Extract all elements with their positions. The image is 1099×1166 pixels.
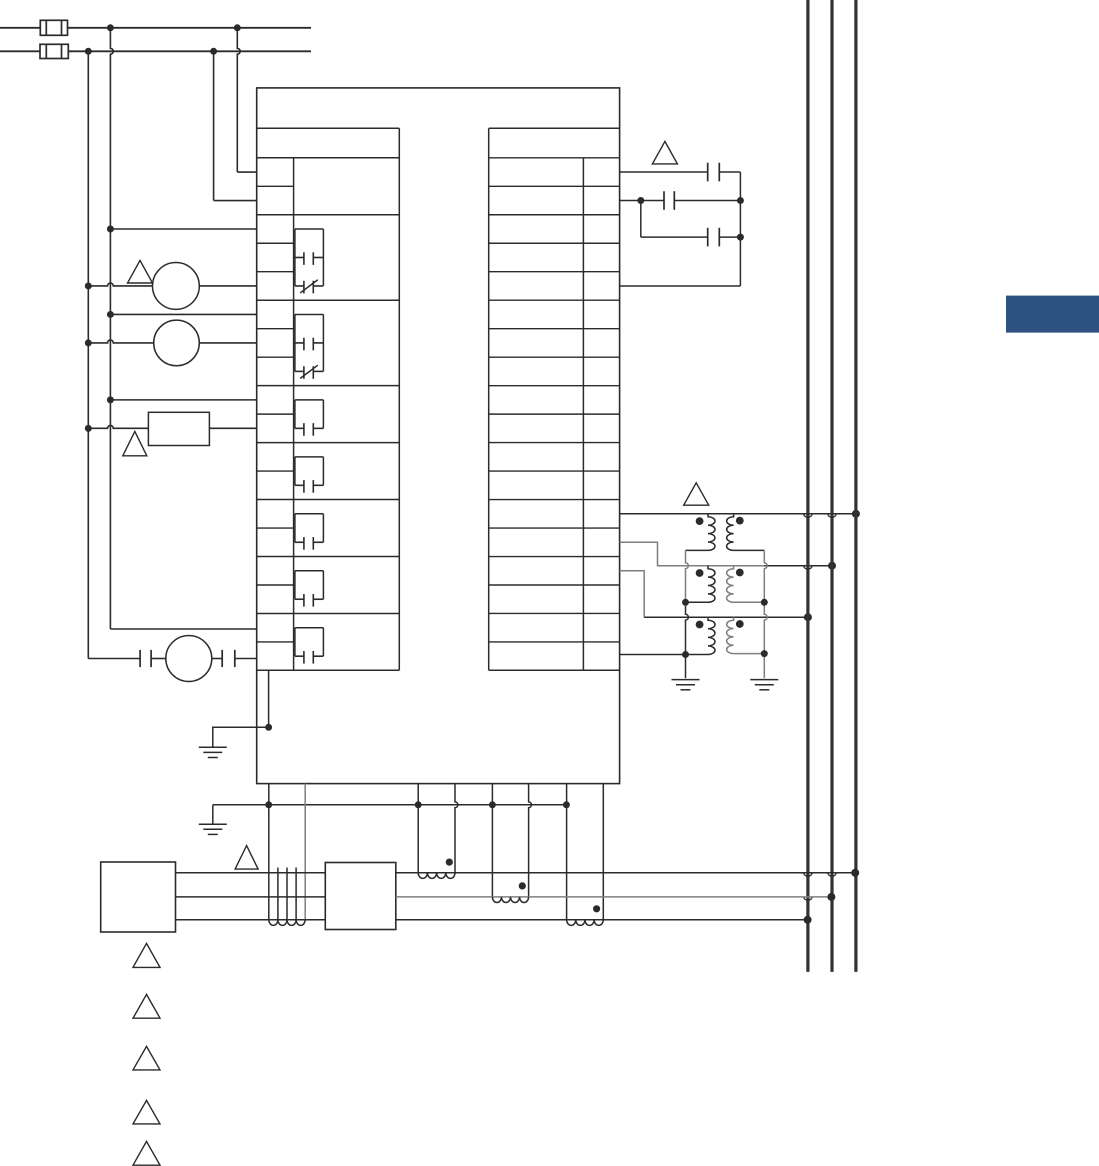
warning triangle 2: [123, 431, 147, 455]
node line2 bus2: [827, 893, 835, 901]
warning triangle 1: [128, 260, 153, 283]
motor M1: [166, 636, 212, 682]
ground G1: [199, 746, 227, 748]
contactor K5 frame: [295, 513, 324, 515]
wire left bus to block row17: [110, 628, 256, 630]
note triangle E: [133, 1141, 160, 1165]
note triangle B: [133, 994, 160, 1018]
wire PL2 to block row7: [199, 342, 256, 344]
transformer T3 primary winding: [708, 617, 715, 654]
wire bottom common: [213, 804, 567, 806]
wire cap return row5: [620, 285, 741, 287]
node line3 bus1: [804, 916, 812, 924]
wire tap to block row9: [110, 399, 256, 401]
current transformer CT1 secondary: [418, 873, 455, 879]
wire stub CT2 a: [491, 784, 493, 897]
capacitor C3: [641, 236, 708, 238]
wire to relay K1: [88, 425, 148, 428]
node left rail T2: [682, 599, 689, 606]
left terminal block outline: [257, 127, 400, 129]
contact K7 NO: [295, 655, 304, 657]
wire meter line 3: [176, 919, 326, 921]
CT2 polarity dot: [519, 882, 526, 889]
wire stub CT1 b: [455, 784, 458, 873]
node L2-B: [210, 48, 217, 55]
contact K4 NO: [295, 484, 304, 486]
contact K5 NO: [295, 541, 304, 543]
node common-4: [563, 801, 570, 808]
transformer T3 secondary winding: [727, 617, 734, 653]
wire phase C H3: [644, 616, 808, 618]
wire tap to block row3: [110, 228, 256, 230]
meter box PJ1: [101, 862, 176, 932]
node right rail T3: [761, 650, 768, 657]
wire phase C feeder: [620, 571, 645, 617]
node right rail T2: [761, 599, 768, 606]
node tap row6: [107, 311, 114, 318]
transformer T2 primary winding: [708, 566, 715, 603]
node H1 bus3: [852, 510, 860, 518]
wire internal ground tap: [268, 670, 270, 727]
indicator lamp PL1: [153, 263, 200, 310]
contact K1 NC: [295, 285, 304, 287]
contactor K4 frame: [295, 456, 324, 458]
wire hop line2 over bus R: [804, 897, 812, 900]
right block divider: [582, 158, 584, 671]
wire left bus down from L2: [87, 51, 89, 658]
wire stub CT3 a: [566, 784, 568, 920]
wire hop line1 over bus S: [828, 873, 836, 876]
wire hop H1 over bus R: [804, 514, 812, 517]
wire feeder from L1 to block row1: [237, 28, 240, 172]
transformer T2 primary polarity dot: [696, 569, 704, 577]
node tap row5: [85, 282, 92, 289]
indicator lamp PL2: [154, 320, 200, 366]
contact K2 NO: [295, 342, 304, 344]
left block terminal row lines: [257, 185, 294, 187]
current transformer CT3 secondary: [567, 920, 604, 926]
node ground tap: [265, 724, 272, 731]
contactor K7 frame: [295, 627, 324, 629]
wire left PT rail: [686, 550, 689, 602]
wire PL1 to block row5: [199, 285, 256, 287]
highlight bar: [1006, 296, 1099, 333]
right terminal block outline: [489, 127, 620, 129]
wire phase B feeder: [620, 542, 686, 565]
transformer T2 secondary polarity dot: [736, 569, 744, 577]
wire supply line L2: [0, 50, 40, 52]
wire hop H1 over bus S: [828, 514, 836, 517]
contact K1 NO: [295, 256, 304, 258]
contact K3 NO: [295, 427, 304, 429]
node common-3: [489, 801, 496, 808]
contact K2 NC: [295, 370, 304, 372]
wire cap row2: [620, 200, 641, 202]
wire CT line 3: [396, 919, 808, 921]
wire stub coil return gray: [304, 784, 306, 920]
ground left PT: [672, 679, 700, 681]
relay K1: [148, 412, 209, 445]
node cap-B: [737, 197, 744, 204]
node cap-A: [637, 197, 644, 204]
wire right PT rail: [764, 550, 767, 678]
capacitor C1: [707, 163, 709, 182]
wire meter line 2: [176, 896, 326, 898]
left terminal divider: [293, 158, 295, 671]
node tap row10: [85, 425, 92, 432]
right block row lines: [489, 157, 620, 159]
wire stub CT2 b: [529, 784, 532, 897]
warning triangle 3: [652, 141, 677, 164]
transformer T3 secondary polarity dot: [736, 620, 744, 628]
transformer T1 primary winding: [708, 514, 715, 551]
transformer T1 secondary polarity dot: [736, 517, 744, 525]
wire stub CT1 a: [417, 784, 419, 873]
wire to indicator PL1: [88, 283, 152, 286]
wire tap to block row6: [110, 313, 256, 315]
wire to indicator PL2: [88, 340, 153, 343]
node common-2: [415, 801, 422, 808]
wire cap branch down: [640, 201, 642, 238]
wire left bus down from L1: [110, 28, 113, 629]
node left rail T3: [682, 651, 689, 658]
wire meter line 1: [176, 872, 326, 874]
node L1-A: [107, 24, 114, 31]
wire stub CT primary left: [268, 784, 270, 920]
meter box PJ2: [325, 863, 396, 930]
wire cap row1: [620, 171, 708, 173]
CT1 polarity dot: [446, 859, 453, 866]
current transformer CT2 secondary: [492, 897, 528, 903]
node tap row7: [85, 339, 92, 346]
node L2-A: [85, 48, 92, 55]
wire supply line L1: [0, 27, 40, 29]
warning triangle 5: [235, 846, 258, 870]
wire hop line1 over bus R: [804, 873, 812, 876]
left block section lines: [257, 214, 400, 216]
CT3 polarity dot: [593, 905, 600, 912]
terminal unit outer frame: [257, 88, 620, 784]
node common-1: [265, 801, 272, 808]
node H2 bus2: [828, 562, 836, 570]
bus phase T: [854, 0, 857, 972]
note triangle C: [133, 1046, 160, 1070]
transformer T3 primary polarity dot: [696, 621, 704, 629]
transformer T2 secondary winding: [727, 566, 734, 603]
node tap row9: [107, 396, 114, 403]
wire stub CT3 b: [602, 784, 604, 920]
transformer T1 primary polarity dot: [696, 517, 704, 525]
ground G2: [199, 823, 227, 825]
wire phase B H2: [686, 565, 765, 567]
note triangle A: [133, 943, 160, 967]
fuse F2: [40, 44, 68, 58]
wire K1 to block row10: [209, 427, 256, 429]
wire CT line 2: [396, 896, 832, 898]
contactor K1 frame: [295, 228, 324, 230]
wire M1 branch to block row18: [235, 658, 257, 660]
contactor K3 frame: [295, 399, 324, 401]
node L1-B: [234, 24, 241, 31]
wire phase A H1: [620, 513, 856, 515]
wire cap right riser: [739, 172, 741, 286]
node tap row3: [107, 226, 114, 233]
wire secondary common H4: [620, 654, 686, 656]
contactor K6 frame: [295, 570, 324, 572]
contactor K2 frame: [295, 313, 324, 315]
note triangle D: [133, 1100, 160, 1124]
node cap-C: [737, 234, 744, 241]
capacitor CB2: [212, 658, 222, 660]
bus phase S: [830, 0, 833, 972]
wire CT line 1: [396, 872, 856, 874]
warning triangle 4: [684, 483, 709, 505]
winding primary coil W1: [277, 868, 279, 920]
wire feeder from L2 to block row2: [213, 51, 215, 200]
transformer T1 secondary winding: [727, 514, 734, 551]
contact K6 NO: [295, 598, 304, 600]
node H3 bus1: [804, 613, 812, 621]
capacitor C2: [641, 200, 664, 202]
capacitor CB1: [139, 650, 141, 667]
wire hop H2 over bus R: [804, 566, 812, 569]
ground right PT: [750, 679, 778, 681]
wire to heater branch row18: [88, 658, 140, 660]
fuse F1: [40, 20, 67, 35]
node line1 bus3: [851, 869, 859, 877]
bus phase R: [806, 0, 809, 972]
